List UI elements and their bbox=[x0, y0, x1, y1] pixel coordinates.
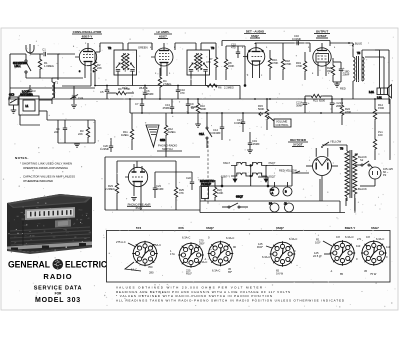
svg-text:6V6GT: 6V6GT bbox=[317, 34, 327, 38]
socket 6V6 bbox=[170, 226, 207, 276]
svg-text:470K: 470K bbox=[285, 62, 291, 66]
capacitor C14 0.004MF bbox=[210, 113, 224, 140]
IF transformer T3 bbox=[175, 43, 216, 86]
svg-text:470: 470 bbox=[180, 91, 185, 95]
svg-text:1500: 1500 bbox=[378, 106, 384, 110]
svg-text:6SQ7: 6SQ7 bbox=[206, 226, 214, 230]
svg-text:100*: 100* bbox=[315, 241, 321, 245]
resistor R9 470K bbox=[107, 87, 134, 95]
label PHONO-RADIO SWITCH bbox=[157, 144, 182, 152]
svg-text:GREEN: GREEN bbox=[138, 46, 148, 50]
svg-text:S2: S2 bbox=[360, 158, 364, 162]
svg-text:6.3A-C: 6.3A-C bbox=[226, 236, 234, 240]
svg-text:T6: T6 bbox=[340, 147, 344, 151]
svg-text:30MF: 30MF bbox=[296, 104, 303, 108]
resistor R12 1MEG bbox=[164, 113, 175, 157]
svg-text:P1: P1 bbox=[269, 202, 273, 206]
capacitor C6 0.05MF bbox=[143, 86, 154, 100]
svg-text:6SQ7: 6SQ7 bbox=[251, 34, 259, 38]
capacitor C19 .05MF bbox=[248, 132, 260, 150]
heater wiring filaments bbox=[231, 163, 292, 187]
shorting link switch bbox=[13, 54, 31, 78]
ground bbox=[71, 105, 77, 108]
svg-text:SWITCH: SWITCH bbox=[162, 147, 173, 151]
svg-text:47K: 47K bbox=[206, 60, 211, 64]
svg-text:1MEG: 1MEG bbox=[121, 133, 129, 137]
svg-text:I-F AMPL: I-F AMPL bbox=[157, 30, 170, 34]
junction dots row2 bbox=[106, 85, 343, 114]
capacitor C18D 20MF cathode bypass bbox=[333, 62, 350, 82]
resistor R25 bbox=[174, 178, 184, 210]
wire phono plate bbox=[117, 161, 192, 180]
electrolytic C18A bbox=[270, 182, 279, 196]
svg-text:6SQ7: 6SQ7 bbox=[236, 195, 243, 199]
capacitor C7 bypass bbox=[135, 99, 144, 113]
svg-text:6SB7-Y: 6SB7-Y bbox=[345, 226, 356, 230]
svg-text:R6: R6 bbox=[218, 86, 222, 90]
trimmer capacitor C2A bbox=[70, 90, 83, 104]
svg-text:2.2MEG: 2.2MEG bbox=[224, 86, 234, 90]
wire antenna bus bbox=[26, 54, 75, 80]
label NOTES bbox=[15, 156, 29, 160]
svg-text:0.8: 0.8 bbox=[366, 235, 370, 239]
label PHONO PRE-AMP 6SQ7 bbox=[127, 203, 151, 211]
svg-text:RECTIFIER: RECTIFIER bbox=[290, 138, 307, 142]
svg-text:22K: 22K bbox=[78, 132, 83, 136]
svg-text:R10*: R10* bbox=[186, 272, 192, 276]
svg-text:C7: C7 bbox=[135, 102, 139, 106]
svg-text:65*: 65* bbox=[228, 270, 232, 274]
svg-text:110: 110 bbox=[386, 245, 391, 249]
svg-text:RADIO: RADIO bbox=[43, 272, 72, 281]
svg-text:YELLOW: YELLOW bbox=[330, 140, 342, 144]
svg-text:.05MF: .05MF bbox=[162, 106, 170, 110]
svg-text:1MEG: 1MEG bbox=[168, 130, 176, 134]
svg-text:T3: T3 bbox=[211, 46, 215, 50]
wire screen bus bbox=[130, 43, 160, 113]
svg-text:5Y3GT: 5Y3GT bbox=[293, 143, 303, 147]
magnetic pickup bbox=[200, 179, 214, 201]
label DET-AUDIO 6SQ7 bbox=[244, 30, 266, 39]
svg-text:.05MF: .05MF bbox=[252, 142, 260, 146]
antenna bbox=[26, 44, 34, 54]
tube V6 6SQ7 phono preamp bbox=[125, 164, 148, 196]
svg-text:470K: 470K bbox=[272, 61, 278, 65]
svg-text:100K: 100K bbox=[217, 191, 223, 195]
svg-text:LINK: LINK bbox=[15, 64, 21, 68]
svg-text:C1: C1 bbox=[42, 48, 46, 52]
svg-text:RED-YELLOW: RED-YELLOW bbox=[279, 169, 297, 173]
label CONV-OSCILLATOR 6SB7-Y bbox=[72, 30, 102, 39]
svg-text:6SQ7: 6SQ7 bbox=[276, 226, 284, 230]
svg-text:1.0MEG: 1.0MEG bbox=[44, 64, 54, 68]
svg-text:17A: 17A bbox=[170, 252, 175, 256]
ground phono bbox=[131, 196, 141, 210]
svg-text:T2: T2 bbox=[108, 46, 112, 50]
label RECTIFIER 5Y3GT bbox=[288, 138, 308, 147]
svg-text:20MF: 20MF bbox=[343, 73, 350, 77]
resistor R8 bbox=[224, 50, 234, 80]
phono jack J1 bbox=[284, 202, 294, 213]
label OUTPUT 6V6GT bbox=[314, 30, 330, 39]
ground C2B bbox=[11, 110, 17, 113]
electrolytic C21B 20MF bbox=[330, 99, 343, 113]
power transformer T6 bbox=[322, 145, 358, 213]
resistor R23 2.2MEG bbox=[105, 170, 119, 210]
pin number labels V3 bbox=[242, 47, 268, 77]
note shorting link bbox=[20, 162, 72, 171]
switch S1B phono-radio wafer bbox=[146, 125, 165, 147]
loop antenna L1 bbox=[19, 90, 52, 121]
tube V5 5Y3GT rectifier bbox=[306, 148, 338, 201]
wire oscillator section bbox=[52, 78, 91, 90]
svg-text:OTHERWISE INDICATED: OTHERWISE INDICATED bbox=[23, 179, 53, 183]
electrolytic C18B bbox=[283, 182, 292, 196]
resistor R18 470K bbox=[281, 43, 291, 80]
label RED-YELLOW bbox=[279, 169, 300, 174]
capacitor C17 0.02MF bbox=[234, 113, 245, 132]
svg-text:500K: 500K bbox=[200, 107, 206, 111]
svg-text:275A-C: 275A-C bbox=[152, 243, 161, 247]
svg-text:90: 90 bbox=[233, 245, 236, 249]
capacitor C3 bbox=[28, 85, 36, 96]
resistor R14 1500 bbox=[373, 50, 389, 130]
resistor R21 8200 bbox=[305, 94, 332, 102]
capacitor C22 bbox=[186, 176, 194, 190]
svg-text:470K: 470K bbox=[124, 87, 130, 91]
label VOLUME CONTROL bbox=[268, 116, 291, 127]
pilot lamp PL1 bbox=[373, 130, 383, 160]
socket 5Y3 bbox=[116, 226, 161, 275]
svg-text:PHONO-RADIO: PHONO-RADIO bbox=[158, 144, 177, 148]
wire plate coupling bbox=[222, 41, 330, 47]
capacitor C9 bypass bbox=[186, 99, 198, 113]
svg-text:ELECTRIC: ELECTRIC bbox=[65, 260, 107, 270]
wire detector to grid bbox=[226, 46, 245, 55]
svg-text:S1B: S1B bbox=[160, 138, 165, 142]
svg-text:2 MEG: 2 MEG bbox=[163, 82, 171, 86]
svg-text:PICKUP: PICKUP bbox=[201, 182, 211, 186]
svg-text:ALL READINGS TAKEN WITH RADIO-: ALL READINGS TAKEN WITH RADIO-PHONO SWIT… bbox=[116, 298, 345, 302]
resistor R22 100K bbox=[213, 180, 223, 201]
wire AVC bus bbox=[10, 54, 216, 99]
svg-text:C5: C5 bbox=[100, 90, 104, 94]
svg-text:110: 110 bbox=[356, 244, 361, 248]
wire B-minus bus bbox=[8, 99, 390, 160]
svg-text:22K: 22K bbox=[97, 66, 102, 70]
pin number labels V2 bbox=[150, 47, 176, 75]
radio cabinet photo bbox=[7, 194, 92, 254]
svg-text:6SG7: 6SG7 bbox=[371, 226, 379, 230]
svg-text:350: 350 bbox=[148, 265, 153, 269]
capacitor C23 .01MF bbox=[153, 180, 164, 198]
phono plug P1 bbox=[269, 202, 279, 213]
socket 6SQ7 second bbox=[257, 226, 297, 276]
svg-text:22.5 W: 22.5 W bbox=[313, 254, 322, 258]
resistor R3 bbox=[158, 68, 171, 90]
svg-text:C3: C3 bbox=[32, 89, 36, 93]
power switch S2 bbox=[355, 161, 370, 166]
tube V2 6SG7 IF amplifier bbox=[151, 43, 173, 76]
capacitor C10 bbox=[176, 86, 186, 100]
svg-text:.05MF: .05MF bbox=[146, 92, 154, 96]
capacitor C1 bbox=[30, 48, 60, 57]
wire heater return bbox=[200, 177, 269, 187]
svg-text:LS1: LS1 bbox=[369, 90, 374, 94]
line cord plug P2 bbox=[360, 165, 381, 186]
diode plate detail V3 bbox=[244, 55, 246, 86]
switch S1A bbox=[199, 113, 212, 148]
resistor R3 osc grid bbox=[78, 120, 90, 143]
resistor R24 4700 bbox=[340, 99, 351, 125]
ground pot R10 bbox=[195, 120, 201, 127]
svg-text:NOTES-: NOTES- bbox=[15, 156, 29, 160]
switch S1C radio-phono bbox=[222, 195, 248, 209]
capacitor C5 bbox=[100, 86, 109, 100]
svg-text:FOR: FOR bbox=[55, 292, 62, 296]
wire rectifier filament bbox=[200, 173, 355, 213]
svg-text:6V6: 6V6 bbox=[178, 226, 184, 230]
svg-text:470K: 470K bbox=[296, 64, 302, 68]
speaker LS1 bbox=[369, 50, 392, 100]
junction dots bus2 bbox=[141, 98, 189, 114]
svg-text:6.3A-C: 6.3A-C bbox=[212, 269, 220, 273]
socket 6SG7 bbox=[357, 226, 391, 276]
svg-text:6.3A-C: 6.3A-C bbox=[345, 235, 353, 239]
svg-text:6SQ7: 6SQ7 bbox=[269, 161, 276, 165]
wire left section verticals bbox=[20, 115, 95, 143]
label I-F AMPL 6SG7 bbox=[154, 30, 172, 39]
volume pot R15 bbox=[258, 99, 269, 130]
resistor R7 detector load bbox=[206, 43, 218, 80]
svg-text:6.3A-C: 6.3A-C bbox=[376, 237, 384, 241]
svg-text:.01MF: .01MF bbox=[156, 187, 164, 191]
pin number labels V1 bbox=[73, 43, 101, 48]
svg-text:CAPACITOR VALUES IN MMF UNLESS: CAPACITOR VALUES IN MMF UNLESS bbox=[23, 175, 75, 179]
svg-text:T1: T1 bbox=[55, 81, 59, 85]
svg-text:47K: 47K bbox=[179, 191, 184, 195]
svg-text:BLACK: BLACK bbox=[358, 187, 367, 191]
socket 6SQ7 first bbox=[204, 226, 236, 274]
svg-text:0.004MF: 0.004MF bbox=[210, 131, 221, 135]
svg-text:RED: RED bbox=[340, 87, 346, 91]
capacitor C13 .05MF bbox=[162, 99, 174, 113]
svg-text:BLUE: BLUE bbox=[355, 42, 362, 46]
svg-text:CONV-OSCILLATOR: CONV-OSCILLATOR bbox=[73, 30, 103, 34]
svg-text:J1: J1 bbox=[284, 202, 287, 206]
svg-text:45: 45 bbox=[364, 269, 367, 273]
svg-text:75 W: 75 W bbox=[370, 272, 377, 276]
svg-text:6.3A-C: 6.3A-C bbox=[289, 237, 297, 241]
electrolytic C21A 30MF bbox=[296, 99, 310, 113]
svg-text:2.2MEG: 2.2MEG bbox=[105, 187, 115, 191]
capacitor C15 470 bbox=[231, 43, 240, 59]
svg-text:6.3A-C: 6.3A-C bbox=[262, 255, 270, 259]
socket 6SB7-Y bbox=[313, 226, 361, 276]
capacitor C4 ose bbox=[54, 120, 67, 143]
svg-text:MODEL 303: MODEL 303 bbox=[35, 297, 81, 304]
label BLACK top bbox=[358, 155, 367, 162]
svg-text:4700: 4700 bbox=[345, 110, 351, 114]
svg-text:0.02MF: 0.02MF bbox=[234, 121, 243, 125]
svg-text:0.6 W: 0.6 W bbox=[276, 272, 283, 276]
capacitor C20 AVC line bbox=[100, 138, 113, 152]
svg-text:T5: T5 bbox=[357, 51, 361, 55]
resistor R6 2.2MEG AVC bbox=[206, 84, 240, 99]
svg-text:6SG7: 6SG7 bbox=[223, 161, 230, 165]
capacitor C16 0.01MF coupling bbox=[292, 34, 310, 52]
label BLUE bbox=[348, 42, 362, 47]
svg-text:OPERATING FROM LOOP ANTENNA: OPERATING FROM LOOP ANTENNA bbox=[23, 166, 68, 170]
resistor R16 470K bbox=[268, 50, 278, 80]
junction dots bbox=[94, 85, 376, 114]
label 105-125V 60 CYCLES bbox=[383, 167, 393, 177]
svg-text:R43*: R43* bbox=[257, 245, 263, 249]
svg-text:R9: R9 bbox=[118, 87, 122, 91]
pin number labels V4 bbox=[308, 47, 336, 75]
ground C19 bbox=[247, 150, 253, 153]
svg-text:275 A-C: 275 A-C bbox=[116, 240, 126, 244]
IF transformer T2 bbox=[96, 43, 152, 86]
svg-text:6.3A-C: 6.3A-C bbox=[182, 236, 190, 240]
svg-text:100: 100 bbox=[378, 133, 383, 137]
svg-text:220K: 220K bbox=[228, 64, 234, 68]
svg-text:85: 85 bbox=[340, 272, 343, 276]
svg-text:C2B: C2B bbox=[9, 93, 14, 97]
wire lower-left bus bbox=[105, 157, 200, 213]
svg-text:280: 280 bbox=[149, 271, 154, 275]
resistor R5 volume pot bbox=[191, 99, 206, 120]
svg-text:DET - AUDIO: DET - AUDIO bbox=[246, 30, 265, 34]
svg-text:VOLUME: VOLUME bbox=[276, 120, 288, 124]
resistor R19 470K grid bbox=[296, 52, 307, 80]
logo GENERAL ELECTRIC bbox=[8, 260, 107, 270]
switch gang linkage dashed bbox=[207, 141, 209, 204]
oscillator coil T1 bbox=[52, 78, 59, 104]
svg-text:5Y3: 5Y3 bbox=[136, 226, 142, 230]
svg-text:GENERAL: GENERAL bbox=[8, 260, 50, 270]
note capacitor values bbox=[23, 175, 75, 184]
svg-text:0.8: 0.8 bbox=[336, 235, 340, 239]
svg-text:.05MF: .05MF bbox=[190, 105, 198, 109]
svg-text:OUTPUT: OUTPUT bbox=[316, 30, 329, 34]
tube V3 6SQ7 det-audio bbox=[243, 43, 265, 78]
svg-text:* SHORTING LINK USED ONLY WHEN: * SHORTING LINK USED ONLY WHEN bbox=[20, 162, 72, 166]
svg-text:CONTROL: CONTROL bbox=[276, 123, 290, 127]
resistor R2 bbox=[93, 52, 102, 86]
ground left section bbox=[74, 144, 80, 147]
resistor R20 330 cathode bbox=[327, 58, 335, 82]
svg-text:R21: R21 bbox=[313, 99, 318, 103]
svg-text:6SQ7: 6SQ7 bbox=[269, 175, 276, 179]
svg-text:220: 220 bbox=[54, 130, 59, 134]
heater pin numbers bbox=[238, 164, 264, 177]
svg-text:6SB7-Y: 6SB7-Y bbox=[82, 35, 93, 39]
svg-text:8200: 8200 bbox=[319, 99, 325, 103]
svg-text:1.7A: 1.7A bbox=[149, 249, 155, 253]
svg-text:P2: P2 bbox=[383, 173, 387, 177]
trimmer C2B bbox=[9, 93, 18, 111]
svg-text:0.01MF: 0.01MF bbox=[292, 37, 301, 41]
GE monogram bbox=[53, 259, 64, 270]
output transformer T5 bbox=[330, 43, 384, 99]
tube V1 6SB7-Y converter bbox=[75, 43, 97, 78]
tube V4 6V6GT output bbox=[313, 43, 331, 76]
label YELLOW bbox=[321, 140, 342, 148]
socket diagram box bbox=[107, 231, 391, 283]
svg-text:C22: C22 bbox=[186, 176, 191, 180]
svg-text:500K: 500K bbox=[258, 107, 264, 111]
resistor R1 1.0MEG bbox=[38, 54, 54, 78]
ground cathode V4 bbox=[336, 82, 338, 84]
resistor R11 1MEG bbox=[121, 113, 134, 150]
